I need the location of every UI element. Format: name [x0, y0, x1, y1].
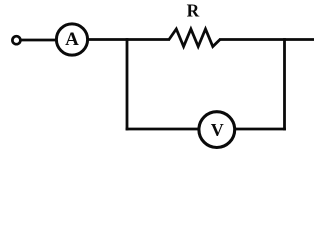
wire voltmeter to bottom right: [235, 128, 286, 131]
svg-text:A: A: [65, 29, 79, 50]
wire right vertical branch: [283, 38, 286, 130]
ammeter A: [56, 24, 87, 55]
svg-text:R: R: [187, 1, 200, 21]
input terminal: [12, 36, 20, 44]
wire left vertical branch: [126, 38, 129, 130]
resistor R: [169, 29, 220, 47]
wire bottom left to voltmeter: [126, 128, 199, 131]
wire resistor to right edge: [219, 38, 314, 41]
wire terminal to ammeter: [21, 39, 56, 42]
voltmeter V: [199, 112, 235, 148]
svg-text:V: V: [211, 120, 224, 140]
wire ammeter to resistor: [89, 38, 171, 41]
